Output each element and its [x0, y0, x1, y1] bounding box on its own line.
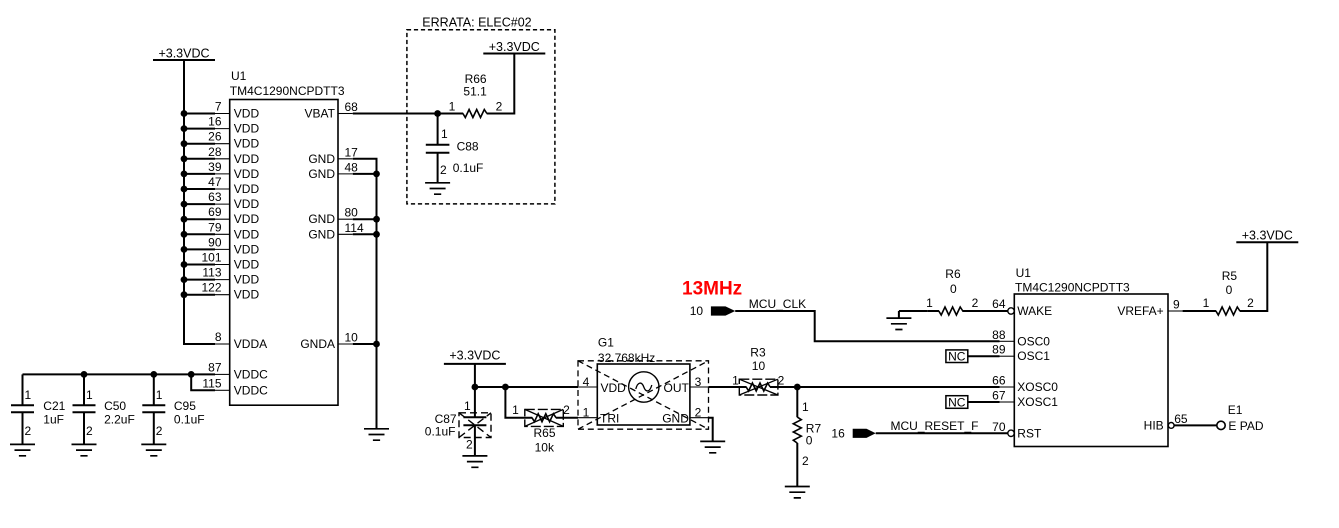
svg-text:WAKE: WAKE	[1017, 304, 1052, 318]
wire R66 to power	[438, 54, 515, 114]
svg-text:VDD: VDD	[601, 381, 627, 395]
svg-text:2: 2	[440, 163, 447, 177]
svg-text:89: 89	[992, 343, 1006, 357]
svg-text:C95: C95	[174, 399, 196, 413]
wire GND pins to bus	[353, 159, 377, 429]
svg-text:VDD: VDD	[234, 107, 260, 121]
wire G1 OUT to XOSC0	[690, 386, 709, 388]
svg-text:VDD: VDD	[234, 122, 260, 136]
errata dashed box	[407, 16, 555, 204]
svg-text:9: 9	[1173, 298, 1180, 312]
svg-text:C50: C50	[104, 399, 126, 413]
svg-text:1: 1	[25, 388, 32, 402]
svg-text:VDD: VDD	[234, 212, 260, 226]
svg-text:10: 10	[690, 304, 704, 318]
wire power to osc net	[474, 364, 476, 387]
svg-text:U1: U1	[1016, 266, 1032, 280]
ground (C88)	[425, 183, 450, 194]
pin lead G1 VDD	[578, 386, 597, 388]
wire VDD bus	[184, 60, 215, 344]
svg-text:87: 87	[208, 361, 222, 375]
resistor R65 (DNP crossed)	[512, 403, 570, 455]
svg-text:2: 2	[972, 296, 979, 310]
svg-text:0.1uF: 0.1uF	[425, 425, 456, 439]
svg-text:G1: G1	[598, 336, 614, 350]
svg-text:16: 16	[831, 427, 845, 441]
svg-text:VDD: VDD	[234, 197, 260, 211]
svg-text:1: 1	[464, 399, 471, 413]
svg-text:0: 0	[806, 434, 813, 448]
svg-text:U1: U1	[231, 69, 247, 83]
svg-text:1: 1	[1203, 296, 1210, 310]
svg-text:2: 2	[25, 424, 32, 438]
svg-text:OUT: OUT	[664, 381, 690, 395]
resistor R5	[1203, 269, 1255, 315]
svg-text:VDD: VDD	[234, 167, 260, 181]
capacitor C21	[11, 374, 66, 444]
pin circle RST	[1008, 430, 1014, 436]
svg-text:79: 79	[208, 220, 222, 234]
svg-text:10: 10	[345, 331, 359, 345]
svg-text:VREFA+: VREFA+	[1117, 304, 1163, 318]
svg-text:OSC0: OSC0	[1017, 334, 1050, 348]
svg-text:64: 64	[992, 297, 1006, 311]
svg-text:VDD: VDD	[234, 288, 260, 302]
svg-text:1: 1	[449, 100, 456, 114]
svg-text:ERRATA: ELEC#02: ERRATA: ELEC#02	[422, 16, 531, 30]
svg-text:GND: GND	[662, 412, 689, 426]
svg-text:2: 2	[802, 454, 809, 468]
junction VDDC	[81, 371, 195, 378]
svg-text:VDDC: VDDC	[234, 368, 268, 382]
oscillator G1 32.768kHz (DNP crossed)	[578, 336, 709, 430]
svg-text:+3.3VDC: +3.3VDC	[1242, 229, 1293, 243]
wire VDDC pin115	[191, 374, 215, 390]
wire osc VDD net	[475, 386, 578, 388]
wire G1 OUT to R3 and XOSC0	[709, 386, 1000, 388]
svg-text:69: 69	[208, 205, 222, 219]
pin leads U1 left	[215, 114, 230, 295]
svg-text:TM4C1290NCPDTT3: TM4C1290NCPDTT3	[230, 84, 345, 98]
svg-text:114: 114	[345, 221, 364, 235]
pin lead VREFA+	[1168, 310, 1183, 312]
pin numbers U1 right chip	[992, 297, 1188, 434]
resistor R66	[449, 72, 503, 118]
svg-text:TRI: TRI	[600, 412, 619, 426]
svg-text:17: 17	[345, 145, 359, 159]
pin leads GND right side	[338, 159, 353, 344]
wire VDDC bus (caps)	[23, 373, 216, 375]
svg-text:10: 10	[752, 359, 766, 373]
svg-text:48: 48	[345, 160, 359, 174]
svg-text:101: 101	[201, 251, 221, 265]
pin lead XOSC0	[1000, 386, 1015, 388]
svg-text:8: 8	[215, 330, 222, 344]
svg-text:R65: R65	[534, 426, 556, 440]
svg-text:113: 113	[202, 266, 221, 280]
pin numbers U1 right side	[345, 100, 364, 345]
svg-text:1: 1	[86, 388, 93, 402]
svg-text:1: 1	[583, 406, 590, 420]
svg-text:VDD: VDD	[234, 258, 260, 272]
ground (U1 GND bus)	[364, 429, 389, 440]
svg-text:122: 122	[201, 281, 221, 295]
wire R65 branch	[505, 387, 578, 418]
pin circle HIB	[1168, 423, 1174, 429]
junction VBAT node	[434, 110, 441, 117]
wire MCU_RESET_F to RST	[876, 432, 1009, 434]
svg-text:51.1: 51.1	[463, 85, 487, 99]
pin numbers U1 left side	[201, 100, 221, 391]
svg-text:C88: C88	[457, 139, 479, 153]
svg-text:VDD: VDD	[234, 152, 260, 166]
svg-text:R5: R5	[1222, 269, 1238, 283]
junction R65 node	[502, 384, 509, 391]
svg-text:0.1uF: 0.1uF	[174, 412, 205, 426]
svg-text:1: 1	[441, 127, 448, 141]
svg-text:GND: GND	[308, 152, 335, 166]
svg-text:1: 1	[512, 403, 519, 417]
svg-text:68: 68	[345, 100, 359, 114]
svg-text:32.768kHz: 32.768kHz	[598, 351, 655, 365]
svg-text:2: 2	[563, 403, 570, 417]
svg-text:XOSC0: XOSC0	[1017, 380, 1058, 394]
pin circle WAKE	[1008, 308, 1014, 314]
svg-text:RST: RST	[1017, 426, 1042, 440]
svg-text:2.2uF: 2.2uF	[104, 412, 135, 426]
capacitor C87 (DNP crossed)	[425, 387, 491, 456]
wire HIB to E PAD	[1174, 424, 1217, 426]
pin lead OSC0	[1000, 340, 1015, 342]
svg-text:C21: C21	[43, 399, 65, 413]
svg-text:NC: NC	[948, 396, 966, 410]
svg-text:GND: GND	[308, 227, 335, 241]
wire VDD pin stubs	[184, 114, 215, 295]
ground (C21)	[10, 444, 35, 455]
pin lead OSC1	[1000, 355, 1015, 357]
svg-text:VBAT: VBAT	[305, 107, 336, 121]
svg-text:2: 2	[466, 437, 473, 451]
ground (R7)	[785, 487, 810, 498]
pin lead VDDC 87	[215, 373, 230, 375]
wire NC to OSC1	[968, 355, 1000, 357]
ground (C95)	[141, 444, 166, 455]
svg-text:2: 2	[156, 424, 163, 438]
svg-text:28: 28	[208, 145, 222, 159]
svg-text:2: 2	[86, 424, 93, 438]
svg-text:E1: E1	[1228, 403, 1243, 417]
svg-text:1: 1	[732, 374, 739, 388]
wire VBAT pin 68	[353, 113, 438, 115]
svg-text:1uF: 1uF	[43, 412, 64, 426]
wire NC to XOSC1	[968, 401, 1000, 403]
svg-text:10k: 10k	[535, 441, 555, 455]
svg-text:63: 63	[208, 190, 222, 204]
IC U1 (right) TM4C1290NCPDTT3	[1014, 266, 1168, 447]
ground (G1)	[700, 441, 725, 452]
svg-text:GND: GND	[308, 212, 335, 226]
resistor R6	[926, 267, 979, 315]
ground (C50)	[72, 444, 97, 455]
svg-text:13MHz: 13MHz	[682, 279, 742, 300]
capacitor C50	[73, 374, 135, 444]
test point E1 E PAD	[1217, 403, 1264, 433]
junction GND bus	[373, 171, 380, 348]
svg-text:1: 1	[156, 388, 163, 402]
wire VREFA+ to R5	[1183, 242, 1268, 311]
pin lead G1 TRI	[578, 417, 597, 419]
wire MCU_CLK to OSC0	[735, 311, 999, 341]
power +3.3VDC (errata)	[483, 40, 545, 54]
svg-text:VDDC: VDDC	[234, 383, 268, 397]
junction dots on VDD bus	[181, 110, 188, 298]
power +3.3VDC (left)	[153, 47, 215, 61]
power +3.3VDC (right)	[1236, 229, 1298, 243]
svg-text:7: 7	[215, 100, 222, 114]
svg-text:VDD: VDD	[234, 242, 260, 256]
svg-text:R3: R3	[750, 346, 766, 360]
capacitor C95	[142, 374, 204, 444]
svg-text:+3.3VDC: +3.3VDC	[489, 40, 540, 54]
svg-text:2: 2	[496, 100, 503, 114]
svg-text:NC: NC	[948, 350, 966, 364]
power +3.3VDC (mid)	[444, 348, 506, 364]
svg-text:GNDA: GNDA	[300, 337, 335, 351]
pin lead VDDC 115	[215, 389, 230, 391]
svg-text:39: 39	[208, 160, 222, 174]
IC U1 (left) TM4C1290NCPDTT3	[230, 69, 345, 405]
svg-text:0: 0	[950, 282, 957, 296]
svg-text:90: 90	[208, 235, 222, 249]
svg-text:OSC1: OSC1	[1017, 349, 1050, 363]
resistor R3 (DNP crossed)	[732, 346, 785, 396]
svg-text:TM4C1290NCPDTT3: TM4C1290NCPDTT3	[1015, 281, 1130, 295]
svg-text:VDD: VDD	[234, 273, 260, 287]
resistor R7	[793, 387, 821, 487]
svg-text:16: 16	[208, 115, 222, 129]
pin lead VBAT	[338, 113, 353, 115]
svg-text:115: 115	[202, 376, 221, 390]
junction C87 node	[472, 384, 479, 391]
wire WAKE net	[899, 311, 1009, 318]
svg-text:65: 65	[1174, 412, 1188, 426]
wire G1 GND pin to ground	[690, 417, 709, 419]
svg-text:2: 2	[1247, 296, 1254, 310]
svg-text:4: 4	[583, 375, 590, 389]
wire VDDA pin 8 (bus corner to pin)	[215, 343, 230, 345]
svg-text:XOSC1: XOSC1	[1017, 395, 1058, 409]
svg-text:GND: GND	[308, 167, 335, 181]
ground (R6)	[886, 318, 911, 329]
pin lead XOSC1	[1000, 401, 1015, 403]
wire G1 GND down	[709, 418, 713, 442]
svg-text:+3.3VDC: +3.3VDC	[449, 348, 500, 362]
svg-text:66: 66	[992, 374, 1006, 388]
capacitor C88	[426, 114, 484, 183]
svg-text:MCU_RESET_F: MCU_RESET_F	[891, 419, 979, 433]
svg-text:80: 80	[345, 206, 359, 220]
svg-text:67: 67	[992, 389, 1006, 403]
svg-text:E PAD: E PAD	[1228, 419, 1263, 433]
svg-text:0: 0	[1226, 283, 1233, 297]
svg-text:1: 1	[926, 296, 933, 310]
junction R7 node	[794, 384, 801, 391]
NC box XOSC1	[946, 396, 968, 410]
svg-text:1: 1	[802, 400, 809, 414]
svg-text:VDD: VDD	[234, 227, 260, 241]
svg-text:0.1uF: 0.1uF	[453, 161, 484, 175]
svg-text:70: 70	[992, 420, 1006, 434]
svg-text:VDD: VDD	[234, 137, 260, 151]
svg-text:+3.3VDC: +3.3VDC	[158, 47, 209, 61]
svg-text:VDD: VDD	[234, 182, 260, 196]
svg-text:R6: R6	[945, 267, 961, 281]
svg-text:26: 26	[208, 130, 222, 144]
input port MCU_RESET_F	[831, 419, 978, 441]
svg-text:2: 2	[778, 374, 785, 388]
svg-text:MCU_CLK: MCU_CLK	[749, 297, 806, 311]
ground (C87)	[462, 456, 487, 467]
svg-text:47: 47	[208, 175, 222, 189]
svg-text:HIB: HIB	[1144, 418, 1164, 432]
svg-text:VDDA: VDDA	[234, 337, 267, 351]
input port MCU_CLK	[690, 297, 806, 318]
svg-text:88: 88	[992, 328, 1006, 342]
NC box OSC1	[946, 350, 968, 364]
